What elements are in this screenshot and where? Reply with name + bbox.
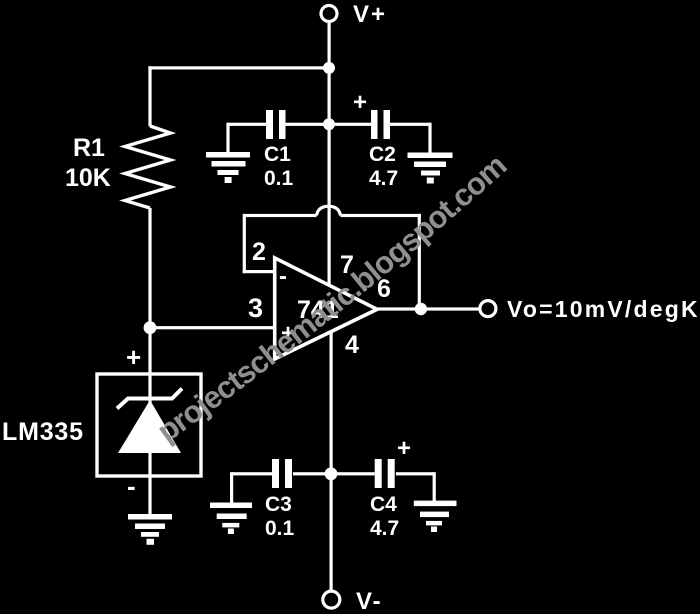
svg-text:C4: C4 bbox=[370, 493, 397, 516]
wire V- stem bbox=[330, 474, 333, 591]
wire top capacitor rail bbox=[228, 123, 266, 126]
wire LM335 anode lead bbox=[148, 328, 151, 375]
terminal output bbox=[480, 301, 496, 317]
svg-text:3: 3 bbox=[248, 293, 263, 323]
svg-text:C2: C2 bbox=[369, 143, 396, 166]
svg-text:+: + bbox=[353, 89, 367, 116]
op-amp U1 741 triangle bbox=[275, 258, 377, 359]
ground C4 bbox=[414, 501, 457, 532]
svg-text:-: - bbox=[127, 471, 136, 501]
svg-text:C3: C3 bbox=[265, 493, 292, 516]
capacitor C2 bbox=[371, 110, 378, 139]
capacitor C3 bbox=[272, 459, 279, 488]
wire output bbox=[377, 307, 480, 310]
wire through LM335 bbox=[148, 374, 151, 515]
capacitor C1 bbox=[266, 110, 273, 139]
node junction cap rail bbox=[323, 118, 335, 130]
svg-text:+: + bbox=[126, 342, 141, 372]
svg-text:4.7: 4.7 bbox=[370, 517, 399, 540]
wire pin2 horizontal bbox=[243, 270, 277, 273]
svg-text:4: 4 bbox=[345, 331, 359, 359]
svg-text:R1: R1 bbox=[73, 134, 105, 162]
wire C4 to ground bbox=[433, 472, 436, 503]
resistor R1 bbox=[125, 126, 171, 208]
node junction LM335/pin3 bbox=[144, 321, 157, 334]
zener triangle bbox=[118, 400, 181, 453]
ground C2 bbox=[408, 153, 453, 184]
zener cathode bar bbox=[117, 389, 182, 409]
wire feedback left vertical bbox=[243, 214, 246, 273]
wire feedback top right segment bbox=[341, 214, 421, 217]
wire top rail to R1 bbox=[148, 66, 329, 69]
capacitor C4 bbox=[375, 459, 382, 488]
ground C1 bbox=[206, 152, 250, 183]
wire bottom capacitor rail bbox=[232, 472, 272, 475]
terminal V+ bbox=[321, 6, 337, 22]
svg-text:Vo=10mV/degK: Vo=10mV/degK bbox=[507, 296, 700, 322]
svg-text:V+: V+ bbox=[353, 1, 387, 28]
ground C3 bbox=[210, 503, 252, 535]
svg-text:10K: 10K bbox=[65, 164, 111, 192]
wire pin7 vertical bbox=[328, 124, 331, 285]
wire feedback top left segment bbox=[244, 214, 316, 217]
sensor LM335 box bbox=[97, 374, 201, 476]
wire hop over pin7 bbox=[317, 206, 341, 215]
wire pin4 vertical bbox=[330, 331, 333, 474]
svg-text:C1: C1 bbox=[264, 143, 291, 166]
svg-text:0.1: 0.1 bbox=[265, 517, 295, 540]
svg-text:4.7: 4.7 bbox=[369, 167, 398, 190]
svg-text:-: - bbox=[279, 263, 287, 290]
ground below LM335 bbox=[128, 514, 172, 545]
svg-text:+: + bbox=[397, 435, 411, 462]
terminal V- bbox=[323, 591, 340, 608]
wire R1 bottom lead bbox=[148, 208, 151, 329]
wire pin3 horizontal bbox=[150, 326, 276, 329]
node junction bottom rail bbox=[325, 467, 338, 480]
svg-text:LM335: LM335 bbox=[2, 418, 84, 446]
svg-text:0.1: 0.1 bbox=[264, 167, 294, 190]
wire V+ stem bbox=[328, 22, 331, 125]
wire C2 to ground bbox=[428, 123, 431, 154]
wire C1 to ground bbox=[226, 123, 229, 154]
node junction top (V+ to R1 rail) bbox=[323, 62, 335, 74]
wire feedback right vertical bbox=[418, 214, 421, 311]
svg-text:V-: V- bbox=[356, 588, 383, 614]
wire C3 to ground bbox=[230, 472, 233, 503]
node output junction bbox=[415, 303, 427, 315]
wire R1 top lead bbox=[148, 66, 151, 126]
svg-text:2: 2 bbox=[252, 238, 266, 266]
